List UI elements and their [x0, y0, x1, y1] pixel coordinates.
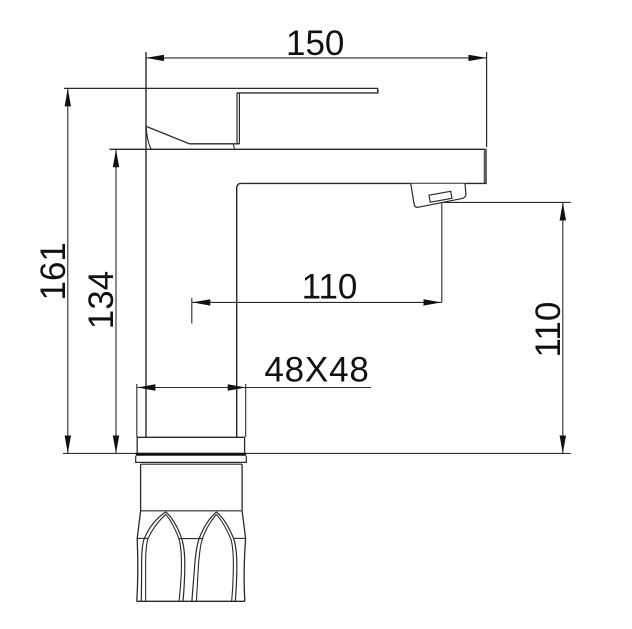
dimension 161 line	[67, 88, 69, 453]
dimension 110 (height) line	[562, 203, 564, 454]
arrowhead 48X48 right	[228, 384, 246, 390]
dimension 110 (reach) line	[192, 301, 441, 303]
arrowhead 161 bottom	[65, 436, 71, 454]
handle wedge front arc	[146, 126, 152, 149]
right petal outer contour	[192, 512, 237, 601]
base flange upper band	[137, 437, 244, 452]
left petal outer contour	[141, 512, 184, 601]
150-dim right extension line	[486, 52, 488, 147]
dimension 110 (height) top extension line	[444, 201, 571, 203]
svg-text:110: 110	[529, 302, 568, 358]
arrowhead 134 bottom	[113, 436, 119, 454]
dimension 48X48 right extension line	[245, 384, 247, 437]
arrowhead 150 right	[469, 55, 487, 61]
lever stem (double line)	[236, 93, 238, 144]
faucet body left edge (also 150-dim extension line)	[145, 52, 147, 437]
arrowhead 110 reach right	[424, 299, 442, 305]
arrowhead 110 height top	[560, 203, 566, 221]
dimension 134 line	[115, 149, 117, 453]
svg-text:150: 150	[286, 24, 344, 63]
aerator outlet small rectangle	[429, 191, 452, 202]
arrowhead 110 height bottom	[560, 436, 566, 454]
nut upper section sides	[140, 464, 142, 511]
spout aerator (tilted outlet piece)	[411, 184, 466, 208]
mounting surface thick dark bar	[136, 453, 247, 456]
arrowhead 134 top	[113, 149, 119, 167]
spout arm bottom edge with corner fillet into body right edge	[237, 183, 487, 437]
mounting-surface long extension line	[63, 452, 571, 454]
nut lower-left outer profile	[137, 511, 141, 602]
faucet body top face / spout arm top edge (also 134-dim extension line)	[110, 148, 487, 150]
nut mid line	[141, 510, 243, 512]
handle wedge (lever base) sloped top	[146, 126, 240, 144]
left petal inner contour	[146, 514, 182, 601]
dimension 110 (reach) centre tick	[191, 298, 193, 324]
lever handle bar top edge (also 161-dim extension line from x=64)	[64, 87, 378, 89]
dimension 48X48 line with leader	[137, 387, 371, 389]
arrowhead 48X48 left	[137, 384, 155, 390]
lever handle bar bottom edge and end cap	[237, 88, 378, 93]
right petal inner contour	[196, 514, 233, 601]
dimension 150 line	[146, 57, 487, 59]
dimension 48X48 left extension line	[136, 384, 138, 437]
svg-text:134: 134	[82, 271, 121, 329]
nut facet line segments at y=538.5	[137, 537, 148, 539]
dimension 110 (reach) right extension from aerator	[441, 203, 443, 302]
arrowhead 150 left	[146, 55, 164, 61]
handle wedge right fillet tick	[233, 144, 235, 149]
nut lower-right outer profile	[242, 511, 246, 602]
arrowhead 110 reach left	[192, 299, 210, 305]
arrowhead 161 top	[65, 88, 71, 106]
spout arm right end (thick edge)	[484, 149, 487, 184]
nut top edge line	[141, 463, 243, 465]
base flange lower band	[136, 456, 247, 462]
svg-text:161: 161	[34, 242, 73, 300]
svg-text:110: 110	[302, 268, 358, 307]
nut bottom edge	[137, 600, 245, 602]
svg-text:48X48: 48X48	[264, 351, 369, 390]
